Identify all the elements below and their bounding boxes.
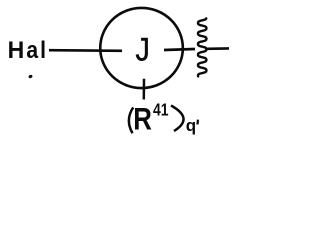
substituent label: open paren of (R41)q'	[129, 107, 133, 133]
svg-text:41: 41	[153, 101, 169, 120]
svg-text:a: a	[26, 37, 38, 64]
ring J (circle)	[100, 8, 183, 88]
svg-text:R: R	[133, 102, 152, 137]
svg-text:H: H	[8, 36, 25, 63]
svg-text:q: q	[186, 116, 196, 135]
wire after squiggle	[207, 47, 229, 50]
wire Hal to ring J	[49, 49, 122, 52]
wire ring J to attachment point	[164, 49, 195, 50]
attachment squiggle bond	[198, 18, 206, 76]
close paren (slanted)	[171, 106, 184, 132]
svg-text:l: l	[40, 37, 46, 64]
ink speck below Hal	[28, 74, 33, 79]
svg-text:J: J	[136, 32, 150, 68]
wire ring J to substituent R41	[143, 79, 146, 100]
